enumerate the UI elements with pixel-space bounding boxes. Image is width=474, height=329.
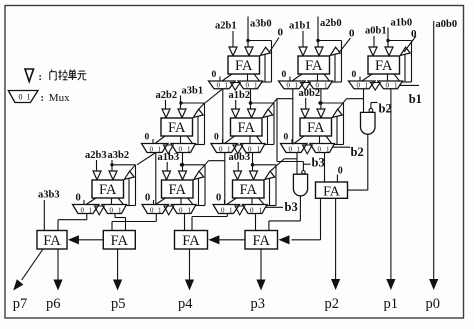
wire diagonal into U32.T3 [199,161,208,172]
svg-text:p4: p4 [178,296,193,312]
wire feedback horizontal at right of cell U12 [318,40,342,42]
wire FA carry diagonal to right mux, cell U21 [187,136,193,144]
wire feedback vertical at right of cell U23 [343,103,345,145]
wire FA41 diagonal output to p7 [22,249,43,280]
wire T3 side vertical of cell U21 [197,116,199,144]
arrowhead into FA44 [279,235,290,244]
small select triangle between muxes of cell U31 [95,206,105,215]
junction dot on T2 input wire, cell U11 [246,39,249,42]
wire FA44 to FA43 carry chain [219,239,245,241]
junction dot U22.T2 wire [249,101,252,104]
gating unit triangle T3 (tilted) of cell U23 [332,109,342,117]
svg-text:a0b3: a0b3 [229,152,251,163]
gating unit triangle T1 of cell U11 [229,47,237,56]
gating unit triangle T2 of cell U13 [385,47,393,56]
wire diagonal U21 left-mux branch [137,153,156,165]
wire U31 right-mux out L-path to FA42 [115,214,126,231]
svg-text:0: 0 [246,82,250,90]
wire a1b0 to gating unit U13.T2 [387,28,389,48]
wire feedback horizontal at right of cell U33 [253,164,277,166]
svg-text:0: 0 [145,193,150,204]
wire feedback vertical at right of cell U12 [341,41,343,83]
wire 0 stub into left mux, cell U21 [152,139,154,144]
full adder FA43 [175,231,208,250]
wire vertical b3 feed [276,99,278,162]
legend text 门控单元 (gating unit) [50,70,87,81]
arrowhead p4 [185,280,194,291]
wire G1 output to FA5 [348,134,368,190]
wire 0 diagonal into U13.T3 [404,36,416,52]
wire FA out to right mux, cell U22 [249,136,251,144]
svg-text:a3b1: a3b1 [182,86,204,97]
full adder FA of cell U32 [162,180,194,198]
gating unit triangle T3 (tilted) of cell U12 [330,47,340,55]
svg-text:0: 0 [278,27,284,39]
bypass mux (left) of cell U11 [209,81,236,90]
wire U23 left-mux output down to NAND G2 [296,153,298,174]
wire feedback horizontal at right of cell U13 [388,40,412,42]
full adder FA of cell U31 [92,180,124,198]
bypass mux (right) of cell U11 [238,81,263,90]
svg-text:FA: FA [238,120,256,136]
bypass mux (left) of cell U33 [213,205,240,215]
svg-text:a0b0: a0b0 [436,19,458,30]
wire FA sum to left mux, cell U12 [292,74,302,81]
svg-text:0: 0 [287,82,291,90]
full adder FA of cell U13 [368,56,400,74]
gating unit triangle T2 of cell U33 [250,171,258,180]
wire U12 left-mux output down to U23 left mux [292,89,294,145]
wire FA sum to left mux, cell U21 [155,136,165,144]
wire FA out to right mux, cell U12 [317,74,319,81]
svg-text:p0: p0 [426,296,441,312]
svg-text:FA: FA [375,58,393,74]
wire U11 right-mux output down to U22.T2 [250,89,252,110]
junction dot U33.T2 wire [251,163,254,166]
wire feedback vertical at right of cell U33 [275,165,277,206]
wire diagonal into U22.T3 [269,99,277,110]
svg-text::: : [39,72,42,83]
bypass mux (right) of cell U21 [171,144,196,154]
wire p5 output [117,249,119,281]
wire T3 side vertical of cell U32 [198,178,200,205]
full adder FA of cell U33 [233,180,265,198]
junction dot on T2 input wire, cell U32 [180,163,183,166]
junction dot on T2 input wire, cell U21 [179,101,182,104]
bypass mux (right) of cell U22 [241,144,266,154]
wire a3b3 down to FA41 [43,200,45,231]
svg-text:FA: FA [235,58,253,74]
svg-text:p7: p7 [13,296,28,312]
full adder FA42 [103,231,135,250]
gating unit triangle T3 (tilted) of cell U32 [194,171,204,179]
wire diagonal into U21.T3 [199,103,205,109]
wire p6 output [57,249,59,281]
junction dot on T2 input wire, cell U12 [316,39,319,42]
svg-text:a1b3: a1b3 [158,152,180,163]
svg-text:1: 1 [257,145,261,153]
svg-text:a1b2: a1b2 [229,90,251,101]
svg-text:a2b3: a2b3 [85,150,107,161]
wire a1b1 to gating unit U12.T1 [302,31,304,47]
wire T3 side vertical of cell U31 [128,178,130,205]
svg-text:0: 0 [221,206,225,214]
gating unit triangle T1 of cell U23 [301,109,309,118]
wire T3 side vertical of cell U12 [334,54,336,82]
wire b3 horizontal to label [277,161,303,163]
svg-text:FA: FA [43,233,61,249]
wire b2 into G1 bubble [371,103,378,109]
wire a0b3 to U33.T1 [237,162,239,171]
svg-text:0: 0 [19,93,23,102]
full adder FA of cell U11 [228,56,260,74]
svg-text:FA: FA [240,182,258,198]
wire 0 diagonal into U11.T3 [270,38,280,53]
svg-text:0: 0 [284,133,289,143]
wire 0 stub into FA5 [336,175,338,183]
wire 0 stub into left mux, cell U32 [153,200,155,205]
wire FA carry diagonal to right mux, cell U31 [118,198,124,205]
svg-text:0: 0 [338,166,343,177]
wire a2b2 to U21.T1 [165,100,167,109]
wire FA42 to FA41 carry chain [79,239,104,241]
svg-text:b1: b1 [409,92,422,106]
NAND gate G2 (b3 gating) [293,174,307,196]
svg-text:1: 1 [259,206,263,214]
wire FA out to right mux, cell U11 [247,74,249,81]
wire a0b2 to U23.T1 [305,98,307,109]
junction dot U32.T2 wire [181,163,184,166]
wire U13 left-mux output down to NAND G1 [363,89,365,113]
wire FA5 carry out down-left to FA44 [292,198,321,240]
svg-text:FA: FA [182,233,200,249]
svg-text:0: 0 [76,193,81,204]
bypass mux (left) of cell U21 [142,144,169,154]
wire FA out to right mux, cell U13 [387,74,389,81]
wire FA out to right mux, cell U32 [180,198,182,205]
svg-text:Mux: Mux [49,92,70,104]
svg-text:1: 1 [158,206,162,214]
svg-text:FA: FA [99,182,117,198]
wire FA sum to left mux, cell U33 [227,198,237,205]
wire FA sum to left mux, cell U22 [225,136,235,144]
wire FA carry diagonal to right mux, cell U13 [394,74,400,81]
junction dot on T2 input wire, cell U33 [251,163,254,166]
small select triangle between muxes of cell U23 [303,145,313,154]
svg-text:a3b0: a3b0 [250,19,272,30]
small select triangle between muxes of cell U33 [235,206,245,215]
small select triangle between muxes of cell U11 [231,83,241,91]
wire FA carry diagonal to right mux, cell U12 [324,74,330,81]
svg-text:0: 0 [216,193,221,204]
full adder FA44 [245,231,278,250]
gating unit triangle T3 (tilted) of cell U22 [263,109,273,117]
NAND gate G1 (b2 gating) [361,112,376,134]
wire feedback horizontal at right of cell U23 [320,102,344,104]
gating unit triangle T2 of cell U11 [245,47,253,56]
svg-text:b2: b2 [351,145,364,159]
wire G2 output to FA44 [269,196,301,231]
svg-text:FA: FA [323,184,341,199]
svg-text:0: 0 [349,28,355,40]
wire 0 stub into left mux, cell U13 [359,77,361,82]
svg-text:0: 0 [352,70,357,80]
gating unit triangle T2 of cell U12 [315,47,323,56]
wire b3 drop to G2 bubble [302,162,304,171]
wire a2b1 to gating unit U11.T1 [232,31,234,47]
wire feedback vertical at right of cell U22 [273,103,275,145]
wire 0 stub into left mux, cell U31 [83,200,85,205]
wire 0 stub into left mux, cell U22 [222,139,224,144]
wire a1b2 to U22.T1 [235,100,237,109]
wire feedback into right mux corner, cell U32 [196,205,206,207]
wire feedback into right mux corner, cell U33 [267,205,277,207]
gating unit triangle T3 (tilted) of cell U11 [260,47,270,55]
wire U33 left-mux out L-path to FA43 [192,214,227,231]
wire FA carry diagonal to right mux, cell U33 [259,198,265,205]
gating unit triangle T1 of cell U33 [234,171,242,180]
wire b1 stub from U13 right mux [400,84,419,86]
wire a2b3 to U31.T1 [96,160,98,171]
arrowhead p6 [53,280,62,291]
bypass mux (left) of cell U31 [73,205,100,215]
wire FA carry diagonal to right mux, cell U32 [188,198,194,205]
svg-text:1: 1 [324,82,328,90]
bypass mux (left) of cell U12 [279,81,306,90]
svg-text:a2b1: a2b1 [215,21,237,32]
gating unit triangle T3 (tilted) of cell U31 [124,171,134,179]
svg-text:b3: b3 [312,156,325,170]
wire U22 left-mux output down to U33 left mux [224,153,226,205]
wire 0 stub into left mux, cell U12 [289,77,291,82]
wire U13 right-mux output down to p1 arrow [390,89,392,283]
svg-text:0: 0 [386,82,390,90]
svg-text:0: 0 [150,206,154,214]
wire branch horizontal from U22 left-mux line [209,160,225,162]
wire a2b0 to gating unit U12.T2 [317,17,319,48]
wire FA out to right mux, cell U31 [111,198,113,205]
wire p3 output [260,249,262,281]
wire U11 left-mux output down to U22 left mux [222,89,224,144]
wire feedback horizontal at right of cell U21 [181,102,205,104]
wire a0b0 vertical down to p0 [433,21,435,283]
gating unit triangle T1 of cell U22 [232,109,240,118]
gating unit triangle T1 of cell U13 [369,47,377,56]
wire 0 stub into left mux, cell U33 [224,200,226,205]
wire T3 side vertical of cell U13 [404,54,406,82]
svg-text:0: 0 [250,206,254,214]
full adder FA of cell U22 [231,118,263,136]
svg-text:a3b2: a3b2 [108,150,130,161]
small select triangle between muxes of cell U21 [164,145,174,154]
gating unit triangle T2 of cell U21 [178,109,186,118]
svg-text:a2b0: a2b0 [320,18,342,29]
wire feedback into right mux corner, cell U13 [402,81,412,83]
legend gating-unit symbol (triangle) [25,69,34,82]
svg-text:1: 1 [225,82,229,90]
inverter bubble on G1 input [369,108,373,112]
wire diagonal into U33.T3 [270,159,284,171]
svg-text:0: 0 [289,145,293,153]
svg-text:FA: FA [111,233,129,249]
svg-text:1: 1 [118,206,122,214]
wire U12 right-mux output down to U23.T2 [320,89,322,110]
gating unit triangle T2 of cell U22 [248,109,256,118]
svg-text:FA: FA [307,120,325,136]
wire feedback into right mux corner, cell U11 [262,81,272,83]
small select triangle between muxes of cell U12 [301,83,311,91]
svg-text:0: 0 [179,145,183,153]
wire U21 left-mux output down to U32 left mux [155,153,157,205]
junction dot on T2 input wire, cell U22 [249,101,252,104]
svg-text:a0b2: a0b2 [299,88,321,99]
wire U31 left-mux out L-path to FA41 [58,214,87,231]
wire feedback into right mux corner, cell U22 [265,144,275,146]
wire FA sum to left mux, cell U31 [86,198,96,205]
bypass mux (left) of cell U23 [281,144,308,154]
gating unit triangle T2 of cell U32 [179,171,187,180]
wire U22 right-mux output down to U33.T2 [252,153,254,172]
arrowhead p3 [256,280,265,291]
svg-text:a3b3: a3b3 [38,190,60,201]
svg-text:1: 1 [187,145,191,153]
wire FA out to right mux, cell U33 [251,198,253,205]
full adder FA41 [37,231,67,250]
wire U32 left-mux out L-path to FA42 [112,214,156,231]
svg-text:0: 0 [212,70,217,80]
wire FA5 sum out down to p2 [335,198,337,279]
svg-text:p2: p2 [325,296,340,312]
svg-text:1: 1 [394,82,398,90]
arrowhead into FA43 [208,235,219,244]
svg-text:a1b0: a1b0 [391,18,413,29]
svg-text:1: 1 [89,206,93,214]
arrowhead p7 [13,279,23,290]
svg-text:0: 0 [282,70,287,80]
wire a3b2 to U31.T2 [111,160,113,171]
svg-text:0: 0 [217,82,221,90]
svg-text:0: 0 [145,133,150,143]
wire a0b1 to gating unit U13.T1 [373,36,375,47]
wire diagonal into U23.T3 [338,99,347,110]
svg-text:p5: p5 [111,296,126,312]
wire b3 stub from U33 right mux [266,206,284,208]
small select triangle between muxes of cell U22 [233,145,243,154]
wire 0 diagonal into U12.T3 [340,38,351,52]
svg-text:1: 1 [229,206,233,214]
arrowhead p1 [386,279,395,290]
wire b2 stub from U23 right mux [333,146,350,148]
svg-text:1: 1 [188,206,192,214]
arrowhead p2 [331,279,340,290]
wire feedback into right mux corner, cell U31 [126,205,136,207]
gating unit triangle T1 of cell U32 [163,171,171,180]
wire FA sum to left mux, cell U13 [362,74,372,81]
gating unit triangle T1 of cell U21 [162,109,170,118]
gating unit triangle T3 (tilted) of cell U33 [265,171,275,179]
bypass mux (right) of cell U23 [310,144,335,154]
arrowhead into FA41 [68,235,79,244]
arrowhead p5 [113,280,122,291]
wire feedback horizontal at right of cell U22 [251,102,275,104]
wire 0 stub into left mux, cell U23 [291,139,293,144]
junction dot on T2 input wire, cell U23 [318,101,321,104]
bypass mux (right) of cell U13 [378,81,403,90]
svg-text:0: 0 [318,145,322,153]
svg-text:1: 1 [254,82,258,90]
wire feedback horizontal at right of cell U32 [182,164,206,166]
wire diagonal into U31.T3 [130,165,136,171]
wire FA sum to left mux, cell U23 [294,136,304,144]
svg-text:b2: b2 [379,102,392,116]
svg-text:1: 1 [27,93,31,102]
wire FA carry diagonal to right mux, cell U11 [254,74,260,81]
bypass mux (left) of cell U22 [211,144,238,154]
svg-text:1: 1 [365,82,369,90]
full adder FA of cell U23 [300,118,332,136]
svg-text:FA: FA [168,120,186,136]
junction dot on T2 input wire, cell U13 [386,39,389,42]
gating unit triangle T3 (tilted) of cell U13 [400,47,410,55]
wire feedback into right mux corner, cell U21 [195,144,205,146]
wire U33 right-mux out to FA44 [255,214,257,231]
wire feedback vertical at right of cell U11 [271,41,273,83]
arrowhead p0 [429,279,438,290]
gating unit triangle T3 (tilted) of cell U21 [193,109,203,117]
wire T3 side vertical of cell U22 [267,116,269,144]
svg-text:p1: p1 [384,296,399,312]
wire feedback into right mux corner, cell U23 [334,144,344,146]
svg-text:0: 0 [150,145,154,153]
wire b3 stub right [303,163,310,165]
wire a1b3 to U32.T1 [166,162,168,171]
bypass mux (right) of cell U31 [102,205,127,215]
small select triangle between muxes of cell U13 [371,83,381,91]
gating unit triangle T1 of cell U31 [93,171,101,180]
svg-text:p3: p3 [251,296,266,312]
wire p4 output [189,249,191,281]
wire branch horizontal from U23 left-mux line [284,158,297,160]
gating unit triangle T2 of cell U31 [109,171,117,180]
wire diagonal U11 left-mux branch [205,89,223,103]
wire U21 right-mux output down to U32.T2 [182,153,184,172]
svg-text:a1b1: a1b1 [289,21,311,32]
small select triangle between muxes of cell U32 [164,206,174,215]
svg-text:1: 1 [297,145,301,153]
wire feedback vertical at right of cell U32 [204,165,206,206]
inverter bubble on G2 input [302,171,305,174]
svg-text:0: 0 [219,145,223,153]
wire 0 stub into left mux, cell U11 [219,77,221,82]
wire FA out to right mux, cell U23 [319,136,321,144]
svg-text:FA: FA [169,182,187,198]
wire a3b0 to gating unit U11.T2 [247,17,249,48]
svg-text:0: 0 [214,133,219,143]
svg-text:b3: b3 [285,200,298,214]
wire feedback horizontal at right of cell U11 [248,40,272,42]
svg-text:FA: FA [253,233,271,249]
bypass mux (right) of cell U32 [172,205,197,215]
wire branch horizontal from U13 left-mux line [347,98,364,100]
wire feedback into right mux corner, cell U12 [332,81,342,83]
full adder FA of cell U12 [298,56,330,74]
wire U23 right-mux output down to FA5 [324,153,326,182]
full adder FA of cell U21 [161,118,193,136]
gating unit triangle T2 of cell U23 [317,109,325,118]
bypass mux (right) of cell U12 [308,81,333,90]
svg-text:0: 0 [110,206,114,214]
wire FA carry diagonal to right mux, cell U22 [257,136,263,144]
